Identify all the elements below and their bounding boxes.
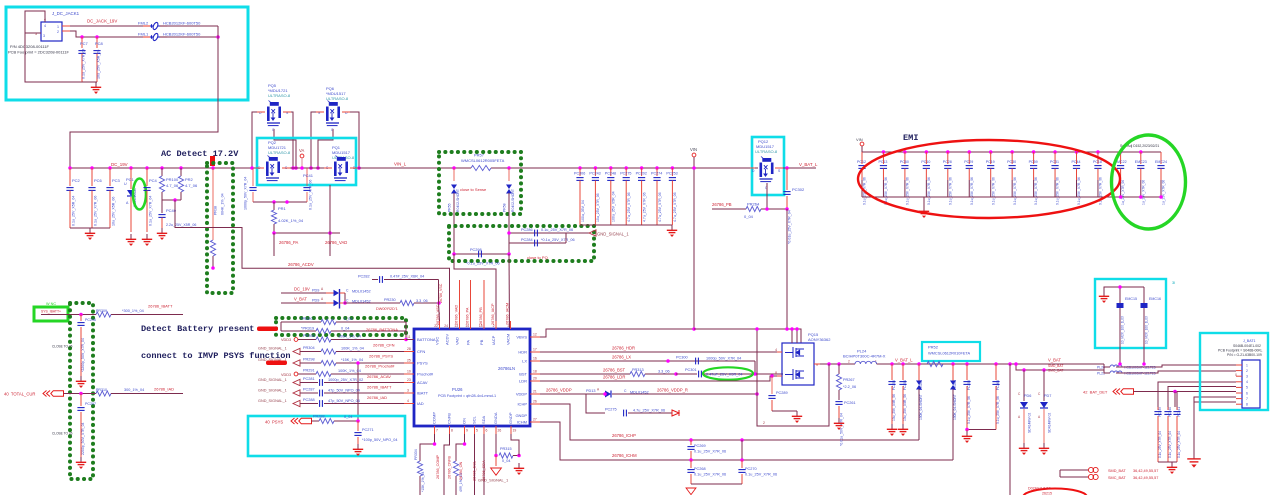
- svg-text:*0.1u_25V_X7R_06: *0.1u_25V_X7R_06: [466, 262, 500, 266]
- svg-text:5: 5: [476, 429, 478, 433]
- svg-text:6: 6: [486, 429, 488, 433]
- svg-text:2: 2: [848, 360, 850, 364]
- svg-text:PC202: PC202: [636, 172, 647, 176]
- svg-text:26: 26: [533, 400, 537, 404]
- wire battery links: [1104, 364, 1110, 373]
- svg-text:PC301: PC301: [685, 368, 697, 372]
- svg-text:PC282: PC282: [358, 275, 370, 279]
- signal ground GND_SIGNAL_1: [573, 232, 589, 234]
- svg-text:21: 21: [533, 390, 537, 394]
- red tick marker: [210, 156, 215, 166]
- capacitor PC269: [689, 438, 693, 442]
- capacitor PC241: [1176, 407, 1178, 410]
- resistor PR2: [179, 166, 183, 170]
- svg-text:0.1u_25V_X7R_06: 0.1u_25V_X7R_06: [970, 177, 974, 205]
- svg-text:GNDP: GNDP: [515, 413, 527, 418]
- svg-text:2: 2: [763, 421, 765, 425]
- capacitor PC239: [1157, 407, 1159, 410]
- capacitor PC258: [965, 362, 969, 366]
- svg-text:PC288: PC288: [303, 398, 315, 402]
- wire PQ15 output node: [820, 363, 855, 365]
- capacitor PC288: [300, 403, 318, 405]
- capacitor PC287: [300, 392, 318, 394]
- svg-text:PC261: PC261: [844, 401, 856, 405]
- svg-text:VAD: VAD: [455, 337, 460, 345]
- wire IBATT sense: [41, 314, 96, 316]
- svg-text:10u_25V_X5R_06: 10u_25V_X5R_06: [112, 197, 116, 226]
- ground PD6: [1023, 443, 1025, 448]
- wire PQ12 gate: [766, 183, 768, 209]
- ground bus for input caps: [70, 227, 110, 229]
- svg-text:PC287: PC287: [303, 388, 315, 392]
- resistor PR319: [281, 330, 316, 332]
- svg-text:V_BAT: V_BAT: [294, 297, 307, 302]
- PU26 bottom pin 6 SDA: [483, 426, 485, 434]
- svg-text:SDA: SDA: [481, 415, 486, 424]
- svg-text:*0.01u_25V_X7R_04: *0.01u_25V_X7R_04: [788, 210, 792, 244]
- svg-text:PR230: PR230: [384, 298, 396, 302]
- svg-text:10_M2X_100_1L03: 10_M2X_100_1L03: [1121, 316, 1125, 344]
- svg-text:47p_50V_NPO_04: 47p_50V_NPO_04: [328, 389, 360, 393]
- svg-text:26786LN: 26786LN: [498, 366, 515, 371]
- svg-text:EMC16: EMC16: [1149, 297, 1161, 301]
- svg-text:1u_25V_X7R_06: 1u_25V_X7R_06: [1162, 180, 1166, 205]
- wire PR320 bus to pin11: [406, 339, 414, 341]
- svg-text:VA: VA: [299, 148, 304, 153]
- svg-text:PC59: PC59: [1029, 160, 1038, 164]
- PU26 left pin 3 IBATT: [404, 392, 414, 394]
- junction V_BAT: [1008, 362, 1012, 366]
- svg-text:26: 26: [498, 429, 502, 433]
- capacitor PC306: [578, 166, 582, 170]
- PU26 left pin 11 BATTONA: [404, 339, 414, 341]
- svg-text:J_DC_JACK1: J_DC_JACK1: [52, 11, 80, 16]
- wire GNDP to ground: [511, 434, 519, 456]
- svg-text:100u_35V_04: 100u_35V_04: [581, 200, 585, 222]
- svg-text:11: 11: [407, 335, 411, 339]
- capacitor PC7: [80, 35, 84, 39]
- wire PSYS to PR288: [357, 363, 359, 421]
- capacitor PC44: [1075, 150, 1079, 154]
- wire battery presence right link: [405, 322, 407, 339]
- svg-text:PC297: PC297: [85, 402, 96, 406]
- capacitor PC60: [903, 150, 907, 154]
- svg-text:4.7u_25V_X7R_06: 4.7u_25V_X7R_06: [673, 192, 677, 222]
- svg-text:PC281: PC281: [303, 377, 315, 381]
- PU26 top pin 13 VAD: [459, 280, 461, 329]
- svg-text:PC306: PC306: [574, 172, 585, 176]
- svg-text:1000p_25V_X7R_02: 1000p_25V_X7R_02: [328, 378, 363, 382]
- svg-text:25: 25: [407, 359, 411, 363]
- PU26 left pin 25 PSYS: [404, 362, 414, 364]
- resistor PR288: [312, 420, 320, 422]
- svg-text:0.1u_25V_X7R_04: 0.1u_25V_X7R_04: [1158, 431, 1162, 458]
- PU26 left pin 23 ACAV: [404, 382, 414, 384]
- svg-text:PCB Footprint = S046B-00KL: PCB Footprint = S046B-00KL: [1218, 349, 1263, 353]
- svg-text:0.1u_25V_X7R_06: 0.1u_25V_X7R_06: [309, 180, 313, 210]
- PU26 top pin 24 ACDV: [449, 321, 451, 329]
- capacitor PC284: [509, 242, 566, 244]
- wire output filter common: [967, 429, 996, 431]
- svg-text:0.1u_25V_X7R_06: 0.1u_25V_X7R_06: [694, 473, 726, 477]
- svg-text:PD7: PD7: [1044, 394, 1051, 398]
- svg-text:WMCSL0612R010FETA: WMCSL0612R010FETA: [928, 351, 970, 356]
- PU26 bottom pin 5 SCL: [474, 426, 476, 434]
- ferrite PR265 ICHM tap: [951, 362, 955, 366]
- svg-text:IAD: IAD: [417, 401, 424, 406]
- svg-text:16: 16: [533, 357, 537, 361]
- svg-text:GND_SIGNAL_1: GND_SIGNAL_1: [597, 232, 629, 237]
- svg-text:PC3: PC3: [112, 178, 121, 183]
- resistor PR298: [300, 362, 321, 364]
- svg-text:0.1u_25V_X7R_06: 0.1u_25V_X7R_06: [948, 177, 952, 205]
- wire EMC top: [1104, 287, 1144, 291]
- svg-text:0.47#_25V_X6R_04: 0.47#_25V_X6R_04: [390, 275, 424, 279]
- capacitor PC275: [586, 394, 605, 413]
- capacitor PC3: [108, 166, 112, 170]
- svg-text:CLOSE TO 26: CLOSE TO 26: [52, 432, 73, 436]
- svg-text:SD4148W-02: SD4148W-02: [1028, 413, 1032, 433]
- capacitor PC300: [666, 359, 670, 363]
- svg-text:3: 3: [43, 34, 45, 38]
- svg-text:PD13: PD13: [586, 389, 596, 393]
- resistor PR315: [494, 454, 498, 458]
- svg-text:26786_BST: 26786_BST: [603, 368, 626, 373]
- wire main DC_19V rail: [70, 167, 264, 169]
- svg-text:300_1%_04: 300_1%_04: [124, 388, 144, 392]
- PU26 top pin 2 IACP: [495, 321, 497, 329]
- svg-text:PC6: PC6: [94, 178, 103, 183]
- svg-text:1000p_50V_X7R_04: 1000p_50V_X7R_04: [244, 177, 248, 210]
- svg-text:0.1u_25V_X7R_04: 0.1u_25V_X7R_04: [82, 49, 86, 79]
- wire diode outputs join: [340, 292, 346, 294]
- svg-text:PR310: PR310: [96, 388, 107, 392]
- svg-text:EMC15: EMC15: [1125, 297, 1137, 301]
- svg-text:PB: PB: [479, 339, 484, 345]
- wire VIN cap bank rail: [580, 167, 755, 169]
- svg-text:HCB2012KF-600T50: HCB2012KF-600T50: [163, 32, 201, 37]
- svg-text:PC298: PC298: [470, 248, 482, 252]
- svg-text:26786_VAD: 26786_VAD: [455, 305, 459, 325]
- ground at DC jack: [82, 81, 97, 83]
- sense branch right PR58: [508, 168, 510, 181]
- resistor PR309: [96, 312, 111, 317]
- wire PQ15 frame left: [757, 329, 829, 426]
- ground PD7: [1043, 443, 1045, 448]
- ground for VIN cap bank: [671, 225, 673, 230]
- wire PQ5 gate: [274, 129, 296, 168]
- capacitor PC275: [624, 166, 628, 170]
- svg-text:PC270: PC270: [745, 467, 757, 471]
- svg-text:10: 10: [407, 370, 411, 374]
- svg-text:7: 7: [436, 429, 438, 433]
- svg-text:VBVS: VBVS: [516, 335, 527, 340]
- svg-text:0.1u_25V_X7R_06: 0.1u_25V_X7R_06: [541, 228, 573, 232]
- wire V_BAT down: [1009, 364, 1011, 495]
- svg-text:0.1u_25V_X7R_06: 0.1u_25V_X7R_06: [927, 177, 931, 205]
- svg-text:4.7_06: 4.7_06: [185, 183, 198, 188]
- PU26 top pin 22 VSC: [439, 321, 441, 329]
- svg-text:26786_IACM: 26786_IACM: [506, 303, 510, 325]
- svg-text:10u_25V_X7R_06: 10u_25V_X7R_06: [596, 193, 600, 222]
- resistor PR320: [281, 321, 321, 323]
- capacitor PC28: [946, 150, 950, 154]
- capacitor PC301: [699, 371, 702, 378]
- ground GNDP: [495, 456, 497, 467]
- svg-text:PC286: PC286: [521, 228, 533, 232]
- gate drive bus under PQ2/PQ1: [253, 201, 307, 203]
- wire VSC branch: [438, 280, 440, 304]
- svg-text:GND_SIGNAL_1: GND_SIGNAL_1: [258, 347, 287, 351]
- svg-text:PR315: PR315: [500, 447, 512, 451]
- svg-text:10u_25V_X5R_05: 10u_25V_X5R_05: [97, 50, 101, 79]
- wire VSC to pin22: [439, 303, 440, 321]
- wire PR100/PR2 common node: [162, 199, 181, 201]
- svg-text:4.7u_25V_X7R_06: 4.7u_25V_X7R_06: [627, 192, 631, 222]
- capacitor EMC23: [1139, 150, 1143, 154]
- capacitor PC302: [785, 166, 789, 170]
- power arrow VDDP cap: [672, 410, 679, 416]
- cap bank ground bus: [580, 224, 672, 226]
- svg-text:P/N 4DC3208-00111F: P/N 4DC3208-00111F: [10, 44, 50, 49]
- svg-text:DW00'R2D'1: DW00'R2D'1: [376, 307, 398, 311]
- resistor PR304: [300, 351, 321, 353]
- capacitor PC260: [994, 362, 998, 366]
- wire VDDP_R: [612, 393, 757, 395]
- svg-text:23: 23: [407, 378, 411, 382]
- wire J_BAT1 pin4 drop: [1158, 382, 1236, 407]
- svg-text:0.1u_25V_X7R_06: 0.1u_25V_X7R_06: [694, 450, 726, 454]
- svg-text:0.1u_25V_X7R_06: 0.1u_25V_X7R_06: [1034, 177, 1038, 205]
- svg-text:W NC: W NC: [46, 302, 56, 306]
- resistor PR264: [712, 208, 746, 210]
- svg-text:26786_VAD: 26786_VAD: [325, 240, 347, 245]
- wire BAT_DET filter bottom: [1158, 461, 1177, 463]
- wire PL24 to V_BAT_L: [877, 363, 1104, 365]
- svg-text:3.3_06: 3.3_06: [416, 299, 428, 303]
- svg-text:PC1: PC1: [126, 177, 135, 182]
- svg-text:VDD3: VDD3: [281, 338, 291, 342]
- svg-text:VIN: VIN: [690, 147, 697, 152]
- green dotted box sense filter: [449, 226, 594, 261]
- svg-text:0.1u_25V_X7R_04: 0.1u_25V_X7R_04: [149, 196, 153, 226]
- svg-text:26786_IACP: 26786_IACP: [491, 303, 495, 325]
- svg-text:19: 19: [513, 429, 517, 433]
- svg-text:PR100: PR100: [166, 177, 179, 182]
- PU26 left pin 28 CFN: [404, 351, 414, 353]
- svg-text:*PR319: *PR319: [301, 327, 314, 331]
- ground PC271: [357, 444, 359, 449]
- svg-text:100K_04-SHORT: 100K_04-SHORT: [953, 394, 957, 420]
- svg-text:26786_PA: 26786_PA: [466, 307, 470, 325]
- svg-text:PC44: PC44: [1072, 160, 1081, 164]
- wire SMC_BAT branch: [1016, 364, 1104, 370]
- green highlight rectangle on net: [34, 307, 68, 321]
- capacitor PC296: [80, 315, 82, 322]
- green dotted box AC detect divider: [207, 163, 233, 293]
- PU26 bottom pin 9 ON: [464, 426, 466, 434]
- capacitor PC297: [80, 394, 82, 407]
- svg-text:26786_LX: 26786_LX: [612, 355, 631, 360]
- ground PC296: [80, 376, 82, 381]
- svg-text:*300_1%_04: *300_1%_04: [122, 309, 144, 313]
- capacitor PC12: [861, 152, 863, 164]
- svg-text:10u_25V_X5R_06: 10u_25V_X5R_06: [892, 394, 896, 421]
- svg-text:0.1u_25V_X7R_06: 0.1u_25V_X7R_06: [906, 177, 910, 205]
- svg-text:PC30: PC30: [1007, 160, 1016, 164]
- wire jack pin3 to left rail: [25, 32, 41, 34]
- svg-text:0_04: 0_04: [344, 415, 352, 419]
- svg-text:CNFB: CNFB: [447, 413, 452, 424]
- svg-text:20: 20: [533, 377, 537, 381]
- capacitor PC286: [509, 232, 573, 234]
- wire ACDV net: [175, 200, 450, 329]
- capacitor PC248: [609, 166, 613, 170]
- capacitor PC243: [594, 166, 598, 170]
- svg-text:PC4: PC4: [149, 178, 158, 183]
- svg-text:AONY36362: AONY36362: [808, 337, 831, 342]
- capacitor PC42: [252, 168, 254, 186]
- PU26 bottom pin 19 GNDP: [510, 426, 512, 434]
- svg-text:4.02K_1%_04: 4.02K_1%_04: [278, 218, 304, 223]
- svg-text:0.1u_25V_X7R_06: 0.1u_25V_X7R_06: [745, 473, 777, 477]
- resistor PR306: [298, 339, 316, 341]
- svg-text:PU26: PU26: [452, 387, 463, 392]
- svg-text:SMC_BAT: SMC_BAT: [1108, 476, 1126, 480]
- svg-text:CLOSE TO 26: CLOSE TO 26: [52, 345, 73, 349]
- svg-text:8: 8: [1246, 403, 1248, 407]
- capacitor PC256: [890, 362, 894, 366]
- wire jack pin4 top loop: [25, 11, 45, 33]
- bus entry SMD_BAT: [1088, 467, 1098, 472]
- svg-text:EMC24: EMC24: [1155, 160, 1167, 164]
- svg-text:3: 3: [407, 389, 409, 393]
- capacitor PC31: [1053, 150, 1057, 154]
- svg-text:2200p_50V_X7R_04: 2200p_50V_X7R_04: [81, 422, 85, 455]
- svg-text:PR291: PR291: [303, 369, 315, 373]
- svg-text:26786_COMP: 26786_COMP: [436, 454, 440, 479]
- svg-text:close to PQ: close to PQ: [527, 255, 548, 260]
- svg-text:2: 2: [57, 30, 59, 34]
- svg-text:ICHP: ICHP: [517, 402, 527, 407]
- svg-text:8: 8: [451, 429, 453, 433]
- PU26 right pin 21 VDDP: [530, 393, 540, 395]
- svg-text:604K_1%_04: 604K_1%_04: [221, 193, 225, 215]
- capacitor PC240: [1167, 407, 1169, 410]
- svg-text:LDR: LDR: [519, 379, 527, 384]
- svg-text:0_04: 0_04: [341, 327, 349, 331]
- red marker bar 1: [257, 327, 278, 332]
- capacitor EMC15 (bead): [1119, 287, 1121, 303]
- svg-text:PR306: PR306: [303, 334, 315, 338]
- svg-text:J_BAT1: J_BAT1: [1243, 339, 1256, 343]
- svg-text:V_BAT_L: V_BAT_L: [895, 358, 913, 363]
- svg-text:GNDP: GNDP: [508, 412, 513, 424]
- wire sense to IACP pin: [454, 254, 496, 329]
- svg-text:SCL: SCL: [472, 415, 477, 424]
- svg-text:26786_IBATT: 26786_IBATT: [367, 385, 392, 390]
- green dotted box around PR57 sense: [439, 152, 521, 214]
- svg-text:26786_PB: 26786_PB: [479, 307, 483, 325]
- svg-text:100u_35V_X5R_04: 100u_35V_X5R_04: [612, 191, 616, 222]
- capacitor PC274: [655, 166, 659, 170]
- wire VIN vertical: [693, 157, 695, 329]
- svg-text:PC248: PC248: [605, 172, 616, 176]
- svg-text:PR2: PR2: [185, 177, 194, 182]
- connector J_DC_JACK1: [41, 22, 62, 41]
- diode PD6: [1022, 368, 1026, 372]
- svg-text:PR304: PR304: [303, 346, 315, 350]
- capacitor PC253: [671, 166, 675, 170]
- PU26 left pin 10 Prochot#: [404, 373, 414, 375]
- wire PL21 to J_BAT1 pin2: [1116, 371, 1236, 373]
- svg-text:PC275: PC275: [605, 408, 617, 412]
- svg-text:R0402-SHORT: R0402-SHORT: [456, 189, 460, 212]
- wire VBVS to VIN: [540, 329, 694, 337]
- common cathode bar PD9: [339, 289, 341, 309]
- capacitor PC29: [968, 150, 972, 154]
- green ellipse EMC group: [1112, 135, 1186, 229]
- svg-text:R0402-SHORT: R0402-SHORT: [511, 189, 515, 212]
- svg-text:PSYS: PSYS: [417, 361, 428, 366]
- wire sense to VACM pin: [508, 254, 511, 329]
- capacitor PC268: [690, 460, 692, 468]
- resistor PR310: [96, 391, 111, 396]
- svg-text:6: 6: [1246, 391, 1248, 395]
- svg-text:0.1u_25V_X7R_06: 0.1u_25V_X7R_06: [94, 196, 98, 226]
- svg-text:PR288: PR288: [313, 415, 325, 419]
- PU26 bottom pin 26 GNDA: [495, 426, 497, 434]
- resistor PR1: [273, 202, 275, 210]
- svg-text:EMC23: EMC23: [1135, 160, 1147, 164]
- svg-text:0.1u_25V_X7R_06: 0.1u_25V_X7R_06: [1056, 177, 1060, 205]
- svg-text:100K_1%_04: 100K_1%_04: [338, 369, 361, 373]
- svg-text:100K_1%_04: 100K_1%_04: [338, 335, 361, 339]
- svg-text:DC_19V: DC_19V: [294, 287, 310, 292]
- svg-text:0_04: 0_04: [502, 459, 510, 463]
- svg-text:PC275: PC275: [620, 172, 631, 176]
- svg-text:26786_PA: 26786_PA: [279, 240, 298, 245]
- svg-text:IACP: IACP: [491, 335, 496, 345]
- svg-text:36,42,49,55,57: 36,42,49,55,57: [1133, 469, 1158, 473]
- svg-text:PC274: PC274: [651, 172, 662, 176]
- svg-text:PC269: PC269: [694, 444, 706, 448]
- svg-text:PR320: PR320: [301, 317, 313, 321]
- svg-text:28: 28: [407, 347, 411, 351]
- wire BST net: [540, 373, 630, 375]
- svg-text:PR1: PR1: [278, 206, 287, 211]
- capacitor PC41: [303, 188, 310, 191]
- svg-text:ULTRASO-8: ULTRASO-8: [268, 93, 291, 98]
- svg-text:DC_JACK_19V: DC_JACK_19V: [87, 19, 117, 24]
- svg-text:0.1u_25V_X7R_06: 0.1u_25V_X7R_06: [996, 396, 1000, 424]
- svg-text:4.7_06: 4.7_06: [166, 183, 179, 188]
- svg-text:PC300: PC300: [676, 356, 688, 360]
- wire gate bus 2: [274, 232, 340, 234]
- svg-text:*2200p_50V_X7R_04: *2200p_50V_X7R_04: [81, 338, 85, 372]
- svg-text:VIN: VIN: [856, 137, 863, 142]
- svg-text:GND_SIGNAL_1: GND_SIGNAL_1: [258, 389, 287, 393]
- DC jack input block cyan highlight box: [6, 7, 248, 100]
- resistor PR100: [160, 166, 164, 170]
- svg-text:0.1u_25V_X7R_06: 0.1u_25V_X7R_06: [1013, 177, 1017, 205]
- svg-text:4: 4: [44, 24, 46, 28]
- svg-text:0.1u_25V_X5R_04: 0.1u_25V_X5R_04: [72, 196, 76, 226]
- wire left rail down to ground return: [25, 33, 82, 82]
- svg-text:FML2: FML2: [138, 21, 149, 26]
- wire ICHP net: [540, 404, 919, 440]
- svg-text:42 BAT_DET: 42 BAT_DET: [1083, 390, 1108, 395]
